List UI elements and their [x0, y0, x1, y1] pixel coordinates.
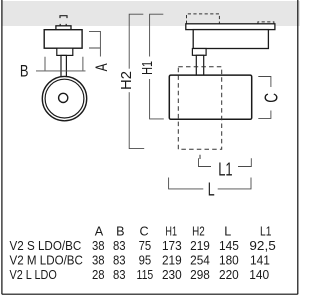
- svg-text:115: 115: [137, 268, 154, 282]
- svg-text:83: 83: [113, 268, 126, 282]
- svg-text:C: C: [262, 93, 282, 103]
- svg-text:230: 230: [162, 268, 182, 282]
- svg-text:173: 173: [162, 239, 182, 253]
- svg-text:219: 219: [190, 239, 210, 253]
- svg-text:75: 75: [139, 239, 152, 253]
- svg-text:92,5: 92,5: [249, 239, 275, 253]
- svg-text:H1: H1: [140, 61, 156, 75]
- svg-text:83: 83: [113, 239, 126, 253]
- svg-text:V2 S LDO/BC: V2 S LDO/BC: [10, 239, 82, 253]
- svg-text:L: L: [208, 179, 215, 199]
- svg-text:H2: H2: [192, 224, 205, 238]
- svg-text:83: 83: [113, 253, 126, 267]
- svg-text:B: B: [116, 224, 124, 238]
- svg-text:L1: L1: [260, 224, 271, 238]
- svg-text:V2 M LDO/BC: V2 M LDO/BC: [10, 253, 83, 267]
- svg-text:220: 220: [219, 268, 239, 282]
- svg-text:219: 219: [162, 253, 182, 267]
- svg-text:38: 38: [92, 239, 105, 253]
- svg-text:A: A: [92, 63, 111, 71]
- svg-text:38: 38: [92, 253, 105, 267]
- svg-text:C: C: [139, 224, 148, 238]
- svg-text:28: 28: [92, 268, 105, 282]
- svg-text:H2: H2: [119, 71, 135, 90]
- svg-text:L1: L1: [218, 159, 232, 179]
- svg-text:180: 180: [219, 253, 239, 267]
- svg-text:L: L: [224, 224, 231, 238]
- svg-text:95: 95: [139, 253, 152, 267]
- svg-text:B: B: [20, 62, 29, 81]
- svg-text:298: 298: [190, 268, 210, 282]
- svg-text:254: 254: [190, 253, 210, 267]
- svg-text:145: 145: [219, 239, 239, 253]
- svg-text:H1: H1: [165, 224, 177, 238]
- svg-text:A: A: [95, 224, 104, 238]
- svg-text:140: 140: [249, 268, 269, 282]
- svg-text:141: 141: [250, 253, 270, 267]
- svg-text:V2 L LDO: V2 L LDO: [10, 268, 57, 282]
